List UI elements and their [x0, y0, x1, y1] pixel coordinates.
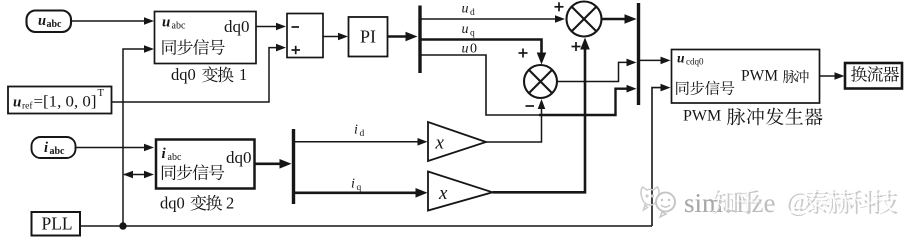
block PLL — [32, 212, 81, 236]
gain triangle G2 — [428, 172, 493, 211]
sign + at M1 left input — [555, 2, 564, 11]
source block i_abc — [32, 137, 76, 158]
wire i_abc to dq0-2 — [76, 144, 155, 152]
svg-text:T: T — [98, 88, 105, 99]
multiplier circle M2 — [524, 65, 557, 98]
block PWM pulse generator — [672, 50, 820, 104]
svg-text:x: x — [438, 183, 448, 204]
block converter — [845, 63, 902, 89]
sum block S1 — [287, 14, 323, 58]
svg-text:abc: abc — [172, 21, 186, 32]
svg-text:dq0: dq0 — [160, 193, 185, 212]
svg-text:u: u — [462, 42, 469, 57]
mux bar 2 — [637, 3, 640, 105]
wire mux bar2 to PWM generator — [640, 57, 671, 65]
wire u_ref to sum plus input — [112, 44, 287, 102]
label PWM pulse generator — [683, 108, 823, 126]
svg-text:q: q — [470, 29, 475, 39]
svg-text:u: u — [462, 22, 469, 37]
svg-text:abc: abc — [168, 152, 182, 163]
label dq0 transform 1 — [171, 65, 247, 84]
svg-text:sim: sim — [684, 188, 723, 218]
svg-text:i: i — [351, 177, 355, 192]
wire M2 output to mux bar2 — [557, 59, 637, 82]
svg-text:1: 1 — [239, 65, 247, 84]
wire u_d to multiplier M1 — [421, 15, 565, 23]
svg-text:ref: ref — [22, 101, 33, 112]
wire u_q to multiplier M2 — [421, 40, 546, 65]
svg-text:i: i — [44, 140, 48, 156]
junction PLL sync — [119, 222, 126, 229]
wire u_abc to dq0-1 — [71, 17, 154, 25]
svg-text:cdq0: cdq0 — [686, 57, 704, 67]
svg-text:PI: PI — [360, 27, 376, 47]
svg-text:q: q — [357, 183, 362, 193]
block u_ref constant — [8, 87, 112, 114]
wire i_q to gain G2 — [295, 188, 428, 198]
source block u_abc — [27, 11, 72, 33]
svg-text:d: d — [360, 129, 365, 139]
svg-text:PLL: PLL — [42, 214, 73, 234]
wire sync branch to dq0-2 — [123, 171, 154, 179]
label i_d — [354, 123, 365, 140]
label u0 — [462, 42, 478, 57]
svg-text:PWM: PWM — [683, 108, 721, 125]
wire sync to dq0-1 from PLL vertical — [123, 45, 154, 226]
wire PI to demux bar1 — [388, 32, 418, 42]
wire G1 output to M2 bottom input — [486, 99, 545, 142]
label i_q — [351, 177, 362, 194]
svg-text:dq0: dq0 — [224, 17, 250, 36]
watermark simulize + zhihu — [641, 186, 898, 218]
gain triangle G1 — [428, 122, 486, 161]
svg-text:u: u — [38, 13, 46, 29]
block dq0 transform 1 (U1) — [155, 12, 257, 64]
svg-text:=[1, 0, 0]: =[1, 0, 0] — [34, 94, 97, 111]
wire dq0-2 output to demux bar3 — [255, 159, 292, 169]
svg-text:abc: abc — [47, 19, 63, 30]
svg-text:u: u — [162, 15, 170, 31]
multiplier circle M1 — [567, 2, 602, 37]
wire M1 output to mux bar2 — [602, 14, 637, 24]
svg-text:2: 2 — [226, 193, 234, 212]
label dq0 transform 2 — [160, 193, 234, 212]
wire u0 to mux bar2 — [421, 55, 637, 115]
sign + at M2 top input — [519, 49, 528, 58]
svg-text:u: u — [13, 95, 21, 111]
demux bar 3 — [292, 129, 295, 204]
svg-text:dq0: dq0 — [226, 148, 252, 167]
svg-text:0: 0 — [470, 42, 477, 57]
wire sum to PI — [323, 33, 348, 41]
wire PWM pulses to converter — [820, 72, 845, 80]
block dq0 transform 2 (U2) — [156, 140, 255, 189]
svg-text:u: u — [462, 2, 469, 17]
label u_d — [462, 2, 476, 19]
sign minus at M2 bottom input — [526, 105, 535, 107]
svg-text:PWM: PWM — [741, 68, 778, 85]
wire i_d to gain G1 — [295, 138, 428, 146]
svg-text:u: u — [677, 51, 685, 66]
svg-text:dq0: dq0 — [171, 65, 196, 84]
sign + at M1 bottom input — [572, 42, 581, 51]
svg-text:@: @ — [785, 186, 809, 215]
svg-text:abc: abc — [50, 146, 66, 157]
wire PLL sync up to PWM generator — [652, 84, 671, 226]
wire dq0-1 output to sum minus input — [256, 23, 286, 31]
svg-text:i: i — [354, 123, 358, 138]
block PI controller — [349, 17, 388, 57]
wire PLL output bus — [80, 225, 652, 227]
svg-text:d: d — [470, 8, 475, 18]
label u_q — [462, 22, 476, 39]
wire G2 output to M1 bottom input — [493, 38, 590, 193]
demux bar 1 — [418, 6, 421, 74]
svg-text:x: x — [435, 133, 445, 154]
